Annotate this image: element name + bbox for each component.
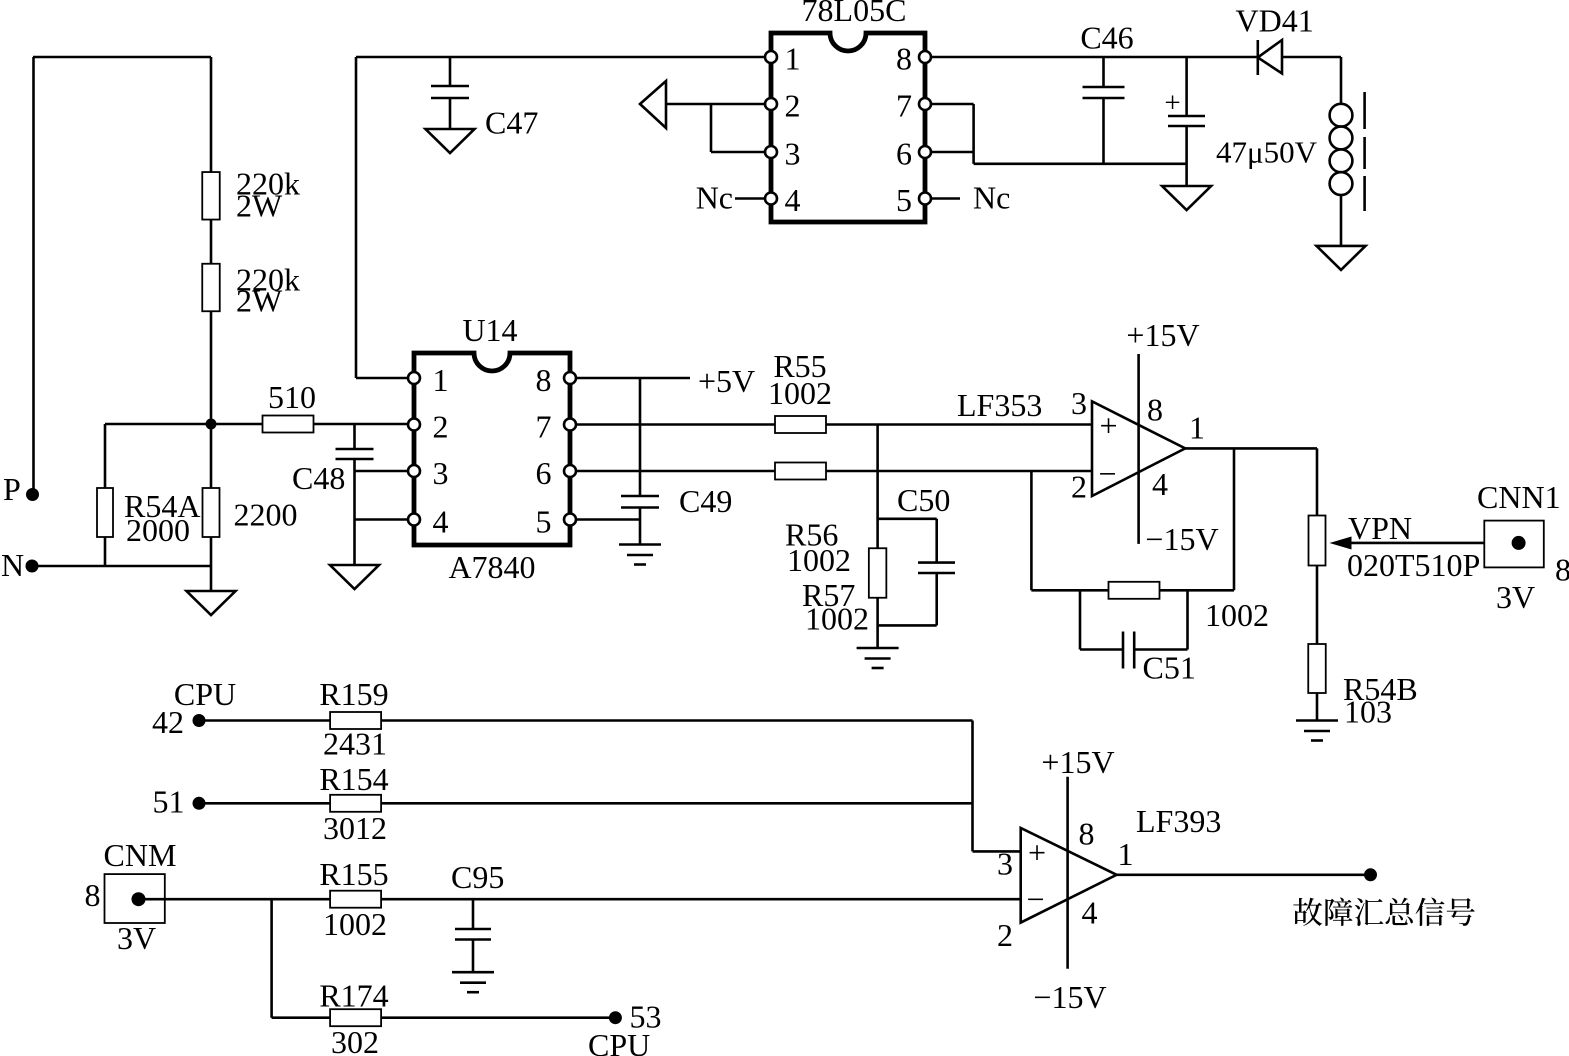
svg-text:4: 4 xyxy=(1082,895,1098,931)
svg-text:2431: 2431 xyxy=(323,726,387,762)
svg-text:4: 4 xyxy=(1152,466,1168,502)
svg-text:+: + xyxy=(1028,835,1046,871)
svg-text:C47: C47 xyxy=(485,105,538,141)
svg-text:+15V: +15V xyxy=(1126,317,1199,353)
svg-text:3: 3 xyxy=(1071,385,1087,421)
svg-text:302: 302 xyxy=(331,1024,379,1056)
svg-text:C95: C95 xyxy=(451,859,504,895)
svg-text:5: 5 xyxy=(536,504,552,540)
svg-text:R159: R159 xyxy=(319,676,388,712)
svg-text:CPU: CPU xyxy=(588,1027,650,1056)
svg-text:4: 4 xyxy=(785,182,801,218)
svg-text:R154: R154 xyxy=(319,761,388,797)
svg-text:1002: 1002 xyxy=(1205,597,1269,633)
svg-text:3: 3 xyxy=(785,136,801,172)
svg-text:8: 8 xyxy=(1079,816,1095,852)
svg-text:Nc: Nc xyxy=(973,180,1010,216)
svg-text:+15V: +15V xyxy=(1041,744,1114,780)
svg-text:3: 3 xyxy=(997,846,1013,882)
svg-text:Nc: Nc xyxy=(696,180,733,216)
svg-text:2200: 2200 xyxy=(234,497,298,533)
svg-text:C51: C51 xyxy=(1143,650,1196,686)
svg-text:4: 4 xyxy=(433,504,449,540)
svg-text:LF353: LF353 xyxy=(957,387,1042,423)
svg-text:1: 1 xyxy=(785,41,801,77)
svg-text:U14: U14 xyxy=(462,312,517,348)
svg-text:C49: C49 xyxy=(679,483,732,519)
svg-text:78L05C: 78L05C xyxy=(802,0,907,28)
svg-text:−: − xyxy=(1098,455,1116,491)
svg-text:7: 7 xyxy=(536,409,552,445)
svg-text:R174: R174 xyxy=(319,978,388,1014)
svg-text:2W: 2W xyxy=(236,188,283,224)
svg-text:−15V: −15V xyxy=(1033,979,1106,1015)
svg-text:CNM: CNM xyxy=(104,837,177,873)
svg-text:1002: 1002 xyxy=(787,542,851,578)
svg-text:2: 2 xyxy=(1071,469,1087,505)
svg-text:CNN1: CNN1 xyxy=(1477,479,1561,515)
svg-text:LF393: LF393 xyxy=(1136,803,1221,839)
svg-text:8: 8 xyxy=(1147,392,1163,428)
svg-text:1002: 1002 xyxy=(323,906,387,942)
svg-text:+: + xyxy=(1164,87,1180,119)
svg-text:7: 7 xyxy=(896,88,912,124)
svg-text:+5V: +5V xyxy=(698,363,755,399)
svg-text:3012: 3012 xyxy=(323,810,387,846)
svg-text:103: 103 xyxy=(1344,694,1392,730)
svg-text:2: 2 xyxy=(433,409,449,445)
svg-text:1: 1 xyxy=(1118,836,1134,872)
svg-text:P: P xyxy=(3,471,21,507)
svg-text:3V: 3V xyxy=(1496,579,1535,615)
svg-text:8: 8 xyxy=(85,877,101,913)
svg-text:2: 2 xyxy=(997,917,1013,953)
svg-text:3: 3 xyxy=(433,455,449,491)
svg-text:8: 8 xyxy=(1555,552,1569,588)
svg-text:1002: 1002 xyxy=(768,375,832,411)
svg-text:2W: 2W xyxy=(236,283,283,319)
svg-text:C48: C48 xyxy=(292,460,345,496)
svg-text:2000: 2000 xyxy=(126,512,190,548)
svg-text:+: + xyxy=(1099,407,1117,443)
svg-text:−: − xyxy=(1026,881,1044,917)
svg-text:N: N xyxy=(1,547,24,583)
svg-text:C50: C50 xyxy=(897,482,950,518)
svg-text:510: 510 xyxy=(268,379,316,415)
svg-text:6: 6 xyxy=(896,136,912,172)
svg-text:8: 8 xyxy=(536,362,552,398)
svg-text:R155: R155 xyxy=(319,856,388,892)
svg-text:020T510P: 020T510P xyxy=(1347,547,1480,583)
svg-text:C46: C46 xyxy=(1080,20,1133,56)
svg-text:5: 5 xyxy=(896,182,912,218)
svg-text:6: 6 xyxy=(536,455,552,491)
svg-text:VD41: VD41 xyxy=(1236,3,1314,39)
svg-text:A7840: A7840 xyxy=(448,549,535,585)
svg-text:1002: 1002 xyxy=(805,601,869,637)
svg-text:−15V: −15V xyxy=(1145,521,1218,557)
svg-text:VPN: VPN xyxy=(1348,510,1412,546)
svg-text:47μ50V: 47μ50V xyxy=(1216,135,1318,170)
svg-text:1: 1 xyxy=(433,362,449,398)
svg-text:3V: 3V xyxy=(117,920,156,956)
svg-text:2: 2 xyxy=(785,88,801,124)
svg-text:42: 42 xyxy=(152,704,184,740)
svg-text:8: 8 xyxy=(896,41,912,77)
svg-text:1: 1 xyxy=(1189,410,1205,446)
svg-text:51: 51 xyxy=(153,784,185,820)
